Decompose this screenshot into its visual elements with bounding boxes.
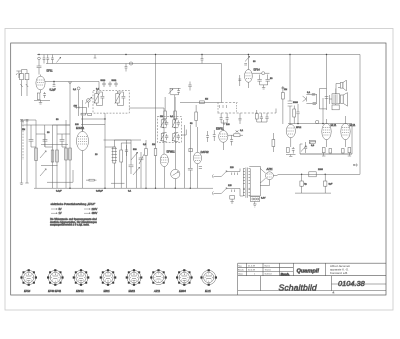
- revision tick: [333, 292, 335, 294]
- wire: HT line y154: [300, 124, 352, 154]
- border frame: [11, 43, 386, 295]
- title block upper dividers: [247, 263, 326, 276]
- node dots ground bus: [69, 188, 191, 189]
- IF trimmer T2 top wire: [170, 87, 181, 89]
- tube V5 EAF: [193, 127, 201, 188]
- svg-text:0,1: 0,1: [96, 89, 100, 91]
- svg-text:Schmid: Schmid: [265, 274, 273, 276]
- legend arrow c: [51, 213, 57, 214]
- wire: can3 exit right: [181, 130, 186, 136]
- svg-text:Quampli: Quampli: [297, 269, 320, 275]
- arrow mark x70 top: [68, 82, 72, 85]
- wire: vertical x184.5: [184, 125, 186, 188]
- capacitor on bus x326: [325, 97, 329, 99]
- svg-text:Thome: Thome: [265, 270, 272, 272]
- svg-text:EFM11: EFM11: [167, 150, 176, 154]
- IF can T1 dashed box: [93, 90, 129, 113]
- wire: vertical x326.5 upper: [326, 55, 328, 111]
- tube V3 EFM11: [160, 154, 168, 188]
- wire: mains line lower: [214, 189, 244, 197]
- legend arrow a: [51, 208, 57, 209]
- wire: right vertical x360: [359, 55, 361, 175]
- diode marks V4: [236, 131, 239, 133]
- plus mark: [354, 164, 358, 167]
- wire: osc section links: [105, 140, 131, 188]
- svg-text:20: 20: [95, 154, 98, 156]
- svg-text:EF12: EF12: [296, 127, 302, 129]
- svg-text:8μ: 8μ: [304, 184, 307, 186]
- svg-text:30: 30: [47, 132, 50, 134]
- coil T3a: [160, 120, 164, 128]
- svg-text:EM11: EM11: [129, 289, 136, 293]
- tube V1 EF11: [36, 75, 45, 94]
- resistor box mixer a: [81, 113, 86, 115]
- wire: filter vertical x57: [56, 125, 58, 188]
- oscillator coil L8: [120, 143, 123, 188]
- title block outer box: [238, 263, 386, 295]
- wire: osc extra vertical x136: [136, 153, 138, 189]
- wire: filter bottom links: [31, 146, 66, 148]
- AVC dashed vertical: [236, 103, 238, 114]
- resistor R6: [195, 105, 198, 127]
- wire: mixer links: [81, 100, 105, 140]
- svg-text:EF40 EF41: EF40 EF41: [48, 289, 62, 293]
- title block upper row lines: [238, 267, 294, 271]
- trimmer arrow T2: [169, 88, 173, 94]
- capacitor AVC a: [220, 113, 223, 123]
- svg-text:EF14: EF14: [254, 68, 261, 72]
- svg-text:EBF11: EBF11: [76, 289, 84, 293]
- wire: coil bottom bracket: [111, 182, 125, 184]
- switch arrow mains b: [222, 188, 228, 194]
- transformer secondary frame: [249, 166, 260, 196]
- speaker SP2: [340, 93, 347, 107]
- switch contact output: [301, 146, 306, 152]
- padder capacitor: [129, 158, 134, 174]
- wire: filter ladder link a: [41, 144, 68, 146]
- wire: vertical drop x66: [65, 120, 67, 188]
- lamp circle on H2: [129, 62, 132, 65]
- wire: mains line upper: [214, 169, 241, 177]
- grid cap circle V2: [85, 97, 92, 103]
- wire: psu ground line: [295, 192, 331, 194]
- junction stub on plate line: [53, 81, 56, 86]
- wire: B plus rail y174: [278, 173, 361, 175]
- svg-text:ausgangsstörbereich ± 6 u.dgl.: ausgangsstörbereich ± 6 u.dgl. mehr.: [50, 224, 90, 227]
- wire: mixer grid run: [75, 106, 87, 114]
- band switch dashed line: [22, 122, 24, 160]
- svg-text:DAF42: DAF42: [201, 150, 210, 154]
- coil L2: [35, 148, 38, 161]
- resistor R12: [282, 86, 285, 124]
- svg-text:125: 125: [228, 185, 232, 187]
- title block small text cells: [238, 265, 272, 275]
- wire: vertical drop x70: [69, 82, 71, 189]
- capacitor T1a: [97, 92, 105, 106]
- cathode network V7 V8: [322, 148, 351, 157]
- svg-text:220V: 220V: [92, 208, 98, 211]
- variable capacitor C t: [139, 152, 144, 166]
- svg-text:5000: 5000: [101, 80, 106, 82]
- tube V4 EBF11: [219, 120, 228, 150]
- tube socket S6: [150, 269, 167, 284]
- wire: osc extra vertical x126: [126, 140, 128, 188]
- svg-text:0104.38: 0104.38: [338, 279, 366, 288]
- wire: filter vertical x21.5 lower: [20, 120, 23, 185]
- svg-text:ECH11: ECH11: [76, 126, 85, 130]
- svg-text:21.4.38: 21.4.38: [248, 265, 256, 267]
- phono jack circle: [37, 57, 42, 74]
- svg-text:Bsch.: Bsch.: [281, 272, 290, 276]
- rectifier tube AZ11: [266, 172, 274, 180]
- svg-text:EBF11: EBF11: [216, 127, 224, 131]
- capacitor ticks filter c: [60, 134, 65, 147]
- capacitor T2: [177, 88, 180, 95]
- svg-text:0,1μF: 0,1μF: [56, 191, 62, 193]
- wire: misc links det: [297, 104, 299, 124]
- wire: filter vertical x36: [35, 120, 37, 188]
- svg-text:100: 100: [226, 124, 230, 126]
- tube socket S1: [20, 269, 37, 286]
- resistor R4: [164, 97, 167, 125]
- resistor R1 cathode: [34, 92, 50, 101]
- node dot below can1: [104, 118, 105, 119]
- coil T1b: [115, 91, 121, 106]
- AVC dashed line upper: [222, 102, 238, 104]
- svg-text:EB11: EB11: [104, 289, 111, 293]
- switch arrow S2a: [131, 152, 138, 160]
- trimmer arrow V3b: [245, 56, 250, 61]
- switch arrow S1a: [40, 151, 46, 158]
- switch arrow S2b: [133, 167, 140, 175]
- resistor box on cathode wire: [86, 179, 97, 181]
- capacitor ticks tone a: [312, 93, 315, 95]
- svg-text:0,1: 0,1: [170, 116, 174, 118]
- electrolytic C17: [300, 174, 303, 193]
- coil L5: [65, 148, 68, 160]
- svg-text:500: 500: [133, 149, 137, 151]
- svg-text:Schaltbild: Schaltbild: [279, 282, 317, 292]
- svg-text:EF11: EF11: [47, 69, 54, 73]
- antenna coil L1: [20, 70, 29, 97]
- resistor box mixer b: [88, 114, 92, 116]
- wire: AVC drop: [217, 103, 219, 114]
- capacitor ticks tone b: [313, 103, 316, 105]
- coil T3c: [160, 133, 164, 141]
- svg-text:6,3V: 6,3V: [261, 198, 266, 200]
- capacitor AVC b: [226, 113, 229, 123]
- tube socket S8: [200, 269, 217, 286]
- tube socket S4: [100, 269, 117, 286]
- svg-text:50: 50: [190, 123, 193, 125]
- svg-text:Konstanz a.B.: Konstanz a.B.: [330, 271, 348, 275]
- svg-text:EM34: EM34: [179, 289, 186, 293]
- svg-text:1: 1: [254, 274, 256, 276]
- wire: filter vertical x27 lower: [25, 120, 28, 183]
- wire: long vertical x155.5: [155, 55, 157, 120]
- svg-text:0,1: 0,1: [240, 130, 244, 132]
- resistor R11: [228, 134, 243, 137]
- drawing number underline: [332, 283, 387, 285]
- capacitor C11: [213, 130, 216, 141]
- svg-text:8μF: 8μF: [329, 184, 333, 186]
- svg-text:2M: 2M: [160, 116, 163, 118]
- svg-text:1M: 1M: [152, 144, 155, 146]
- svg-text:1V: 1V: [59, 212, 62, 215]
- title block lower dividers: [261, 276, 332, 291]
- antenna terminal: [16, 71, 22, 78]
- capacitor osc tick: [125, 145, 128, 156]
- capacitor C13: [257, 75, 261, 85]
- svg-text:EL11: EL11: [350, 123, 356, 127]
- capacitor ticks filter b: [43, 134, 48, 147]
- wire: top supply bus H1: [37, 54, 360, 56]
- wire: filter extra vertical x31: [30, 125, 32, 134]
- grid cap circle V6: [316, 120, 319, 123]
- title block bottom line: [238, 290, 386, 292]
- electrolytic C18: [324, 174, 327, 193]
- detector extra ticks: [220, 105, 227, 108]
- power transformer T5: [243, 168, 250, 198]
- svg-text:100: 100: [75, 124, 79, 126]
- choke box: [309, 172, 316, 177]
- capacitor AVC c: [239, 113, 242, 124]
- wire: AVC caps foot: [221, 123, 227, 125]
- ground symbol PSU: [253, 202, 257, 208]
- wire: det vertical x221: [221, 64, 223, 103]
- capacitor T3a: [163, 119, 169, 128]
- svg-text:0,1μF: 0,1μF: [50, 89, 57, 92]
- resistor R16: [293, 106, 296, 124]
- tube socket S3: [73, 269, 90, 286]
- tube socket S5: [126, 269, 143, 286]
- switch arrow S1b: [40, 169, 46, 176]
- capacitor row above can1: [102, 82, 117, 88]
- tone network loop: [306, 89, 326, 109]
- oscillator coil L7: [112, 140, 117, 188]
- wire: filter extra vertical x44: [44, 125, 46, 147]
- svg-text:AZ11: AZ11: [266, 167, 274, 171]
- capacitor C21: [296, 108, 299, 118]
- resistor R8: [154, 120, 157, 189]
- svg-text:0,1: 0,1: [307, 92, 311, 94]
- svg-text:Gepr.: Gepr.: [238, 273, 244, 276]
- wire: ground bus: [34, 187, 213, 189]
- wire: can3 verticals: [164, 108, 176, 169]
- wire: osc extra vertical x141: [140, 166, 142, 188]
- wire: filter vertical x52.5: [52, 125, 54, 188]
- svg-text:Name: Name: [265, 265, 271, 267]
- wire: vertical x190.3: [189, 125, 191, 188]
- svg-text:460V: 460V: [92, 212, 98, 215]
- capacitor ticks R12 top: [282, 87, 285, 89]
- svg-text:2M: 2M: [284, 89, 287, 91]
- svg-text:AZ11: AZ11: [153, 289, 161, 293]
- capacitor T1b: [118, 92, 126, 106]
- wire: long vertical x290: [289, 55, 291, 125]
- tube socket S2: [47, 269, 64, 286]
- coil L4: [56, 150, 59, 162]
- coil T1a: [94, 91, 100, 106]
- legend arrow d: [84, 213, 90, 214]
- capacitor right of T2: [188, 82, 191, 91]
- capacitor C9: [188, 165, 193, 173]
- svg-text:30.4.38: 30.4.38: [248, 270, 256, 272]
- capacitor mains filter: [230, 196, 235, 204]
- grid cap circle V3b: [252, 72, 269, 75]
- arrow on switch line: [22, 120, 25, 122]
- capacitor C10: [206, 131, 209, 142]
- svg-text:EL11: EL11: [205, 289, 211, 293]
- output transformer T4: [332, 94, 340, 104]
- wire: tone drop: [322, 98, 324, 124]
- speaker SP1: [336, 80, 346, 94]
- svg-text:2M: 2M: [22, 129, 25, 131]
- svg-text:5V: 5V: [59, 208, 62, 211]
- tube V7 EL11 a: [322, 119, 331, 147]
- wire: filter ladder link c: [47, 170, 73, 182]
- tube V3b EF14: [245, 55, 253, 89]
- wire: rectifier links: [260, 169, 277, 186]
- wire: vertical x126 tap: [125, 64, 128, 72]
- svg-text:0,3: 0,3: [311, 145, 315, 147]
- svg-text:2000: 2000: [318, 169, 324, 171]
- capacitor T3d: [174, 133, 180, 142]
- wire: audio line y123.6: [288, 123, 352, 125]
- capacitor T3b: [174, 119, 180, 128]
- svg-text:1M: 1M: [205, 99, 208, 101]
- resistor R5: [174, 97, 177, 123]
- potentiometer P1: [171, 169, 180, 188]
- resistor R9 box: [189, 149, 192, 152]
- svg-text:0,1: 0,1: [73, 89, 77, 91]
- capacitor ticks V8 grid: [304, 142, 307, 153]
- svg-text:50: 50: [56, 119, 59, 121]
- tube V6 driver: [286, 124, 295, 147]
- switch arrow mains a: [222, 171, 228, 177]
- wire: short stub x95 on H1: [94, 55, 97, 59]
- coil T3b: [172, 120, 176, 128]
- resistor R15: [255, 110, 258, 122]
- svg-text:1W: 1W: [74, 106, 78, 108]
- wire: can1 output line: [129, 107, 164, 109]
- svg-text:0,1: 0,1: [128, 191, 132, 193]
- wire: osc top link y140: [104, 139, 142, 141]
- legend arrow b: [84, 208, 90, 209]
- wire: speaker links: [335, 89, 337, 106]
- tube V2 ECH11: [77, 116, 89, 188]
- svg-text:5000: 5000: [293, 102, 299, 104]
- wire: detector line solid: [180, 102, 222, 104]
- node junction dots on H1: [38, 54, 327, 55]
- capacitor T3c: [163, 133, 169, 142]
- resistor R7: [145, 140, 148, 188]
- osc grid circle: [77, 87, 80, 116]
- capacitor C19: [260, 113, 263, 122]
- fuse box: [251, 197, 260, 202]
- wire: left drop x239.8: [238, 75, 241, 86]
- capacitor C12: [230, 135, 233, 145]
- capacitor C14: [266, 75, 270, 85]
- cathode ticks V5: [199, 167, 202, 169]
- wire: filter top links: [22, 120, 71, 134]
- svg-text:elektrische Potentialverteilu: elektrische Potentialverteilung „EF14": [51, 202, 96, 206]
- variable capacitor arrow: [303, 96, 307, 102]
- resistor R10: [200, 101, 205, 104]
- socket row and title block go here: [20, 269, 217, 293]
- coil T3d: [172, 133, 176, 141]
- coil L6: [69, 148, 72, 160]
- wire: second bus H2: [46, 63, 222, 65]
- capacitor ticks V3b anode: [244, 64, 247, 66]
- wire: output stage links: [300, 142, 352, 154]
- capacitor row between H1 and H2: [43, 55, 54, 64]
- wire: AVC hook right: [275, 109, 277, 114]
- coupling capacitor C15: [288, 101, 293, 106]
- wire: filter ladder link b: [41, 165, 58, 167]
- wire: V1 plate line: [45, 82, 99, 91]
- company name lines: [330, 264, 350, 275]
- trimmer arrow: [57, 57, 61, 62]
- svg-text:220: 220: [230, 167, 234, 169]
- voltage selector ticks: [232, 173, 238, 193]
- cathode network V6: [286, 147, 296, 157]
- svg-text:EF14: EF14: [24, 289, 31, 293]
- node dots B plus: [301, 164, 355, 175]
- tube socket S7: [176, 269, 193, 286]
- resistor R13: [272, 133, 275, 152]
- svg-text:0,5: 0,5: [143, 144, 147, 146]
- field coil box: [329, 95, 339, 110]
- AVC dashed line lower: [218, 112, 277, 114]
- coil L3: [51, 150, 54, 162]
- ground symbol det: [260, 85, 268, 89]
- wire: T2 bottom stem: [170, 95, 179, 119]
- svg-text:0,05μF: 0,05μF: [96, 191, 104, 193]
- svg-text:EL11: EL11: [331, 123, 337, 127]
- svg-text:50: 50: [270, 78, 273, 80]
- resistor R14 grid: [309, 140, 315, 143]
- capacitor ticks top of x21: [20, 120, 23, 122]
- wire: filter link top y125: [22, 124, 71, 126]
- mains input prongs: [212, 175, 213, 196]
- capacitor C20: [265, 113, 268, 122]
- node dot audio line: [297, 123, 323, 124]
- tube V8 EL11 b: [341, 116, 350, 147]
- wire: det link y122: [257, 121, 267, 123]
- capacitor ticks filter a: [29, 134, 34, 147]
- svg-text:Bearb.: Bearb.: [238, 269, 245, 272]
- ground symbol under V1: [39, 101, 42, 105]
- wire: short stub x202 on H1: [201, 55, 204, 64]
- capacitor ticks top of x27: [26, 120, 29, 122]
- IF can T3 dashed box: [158, 116, 182, 142]
- svg-text:80: 80: [253, 61, 256, 63]
